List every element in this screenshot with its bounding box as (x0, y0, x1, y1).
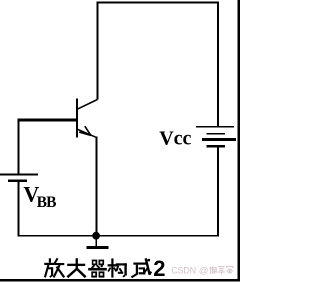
wire: ground rail (17, 235, 219, 237)
wire: emitter lead (96, 137, 98, 237)
decorative frame and watermark (unlabeled) (0, 0, 240, 282)
wire: VCC negative lead (217, 148, 219, 237)
wire: base lead (17, 119, 77, 122)
label VBB (23, 182, 56, 211)
wire: collector riser (96, 1, 98, 99)
wire: top rail (96, 1, 219, 3)
svg-text:2: 2 (153, 256, 165, 281)
svg-text:CSDN: CSDN (171, 265, 196, 275)
transistor Q1 (76, 99, 97, 138)
battery VCC (196, 126, 236, 148)
junction: emitter-ground node (92, 232, 100, 240)
svg-text:BB: BB (37, 194, 57, 211)
battery VBB (0, 174, 38, 182)
wire: VBB negative lead (17, 182, 19, 236)
wire: VBB positive lead (17, 119, 19, 174)
svg-text:@: @ (199, 266, 209, 277)
wire: VCC positive lead (217, 1, 219, 126)
ground (86, 236, 108, 249)
svg-text:Vcc: Vcc (159, 127, 191, 149)
caption 放大器构成2 (44, 256, 165, 281)
